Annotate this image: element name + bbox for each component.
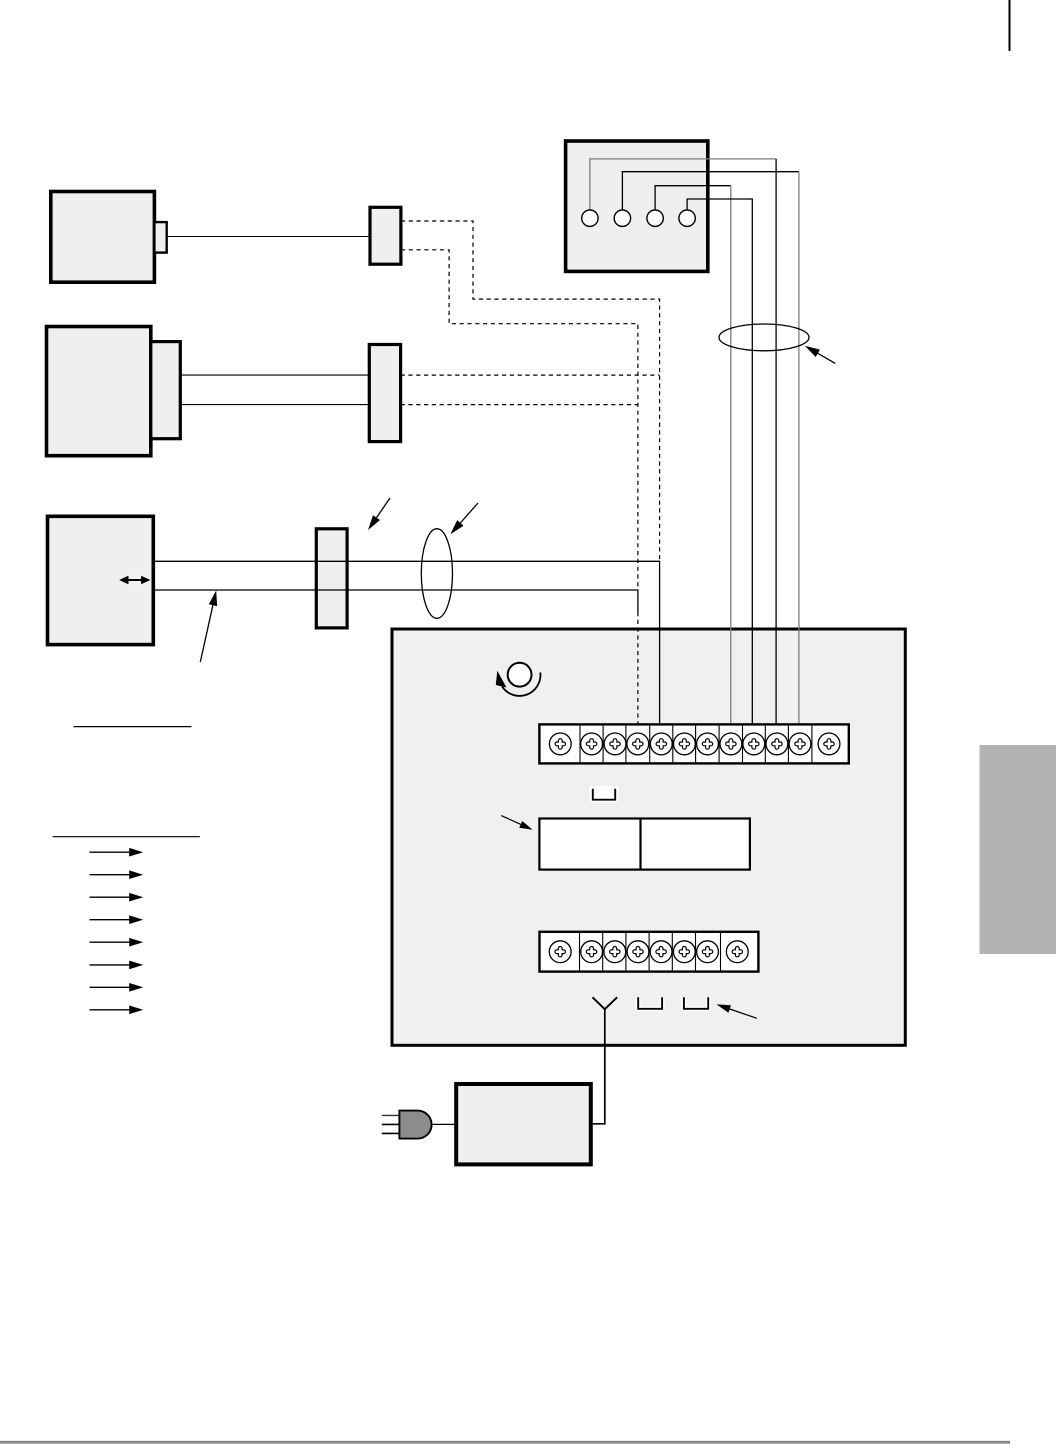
wire box1 to connector1 xyxy=(167,236,370,238)
upper terminal divider 6 xyxy=(695,726,697,763)
remote station box xyxy=(566,141,708,271)
upper terminal screw 4 xyxy=(627,733,649,755)
lower terminal screw 5 xyxy=(650,941,672,963)
legend arrow 5 xyxy=(90,941,130,943)
upper terminal divider 4 xyxy=(649,726,651,763)
dashed cable route A xyxy=(401,221,660,561)
upper terminal screw 12 xyxy=(818,733,840,755)
wire clamp bracket (bottom 1) xyxy=(638,997,662,1009)
device box 1 lens stub xyxy=(154,222,166,253)
device box 2 xyxy=(47,327,151,456)
upper terminal divider 8 xyxy=(742,726,744,763)
legend arrow 7 xyxy=(90,986,130,988)
legend arrow 6 xyxy=(90,964,130,966)
mains plug body xyxy=(399,1111,431,1139)
upper terminal screw 3 xyxy=(604,733,626,755)
remote pin 2 xyxy=(614,210,630,226)
cable bundle ellipse xyxy=(719,324,809,351)
wire from pin 3 vertical xyxy=(730,186,732,725)
remote pin 1 xyxy=(582,210,598,226)
upper terminal screw 11 xyxy=(789,733,811,755)
lower terminal screw 7 xyxy=(697,941,719,963)
upper terminal divider 1 xyxy=(579,726,581,763)
legend underline 1 xyxy=(74,726,192,728)
lower terminal screw 1 xyxy=(549,941,571,963)
lower terminal divider 4 xyxy=(648,933,650,970)
legend arrow 1 xyxy=(90,851,130,853)
wire box3 lower xyxy=(153,590,638,612)
crop mark top right xyxy=(1009,0,1011,51)
page footer rule xyxy=(0,1441,1010,1444)
rotation arrowhead xyxy=(496,671,507,688)
legend arrow 2 xyxy=(90,874,130,876)
wire from pin 2 xyxy=(622,172,799,211)
switch unit divider xyxy=(639,819,641,870)
upper terminal block body xyxy=(539,724,848,763)
lower terminal screw 4 xyxy=(627,941,649,963)
arrow to box3 lower wire xyxy=(200,605,213,662)
upper terminal screw 10 xyxy=(766,733,788,755)
arrow to cable marker xyxy=(460,503,478,523)
wire from pin 1 vertical xyxy=(775,159,777,725)
switch unit box xyxy=(539,819,750,870)
upper terminal screw 8 xyxy=(720,733,742,755)
wire plug to adapter xyxy=(432,1123,457,1125)
wire from pin 3 xyxy=(655,186,731,211)
lower terminal divider 7 xyxy=(720,933,722,970)
control panel box xyxy=(392,629,905,1045)
upper terminal divider 11 xyxy=(811,726,813,763)
lower terminal divider 5 xyxy=(671,933,673,970)
arrow to cable bundle xyxy=(818,353,836,363)
device box 3 xyxy=(48,516,154,644)
ferrite core on box3 cable xyxy=(316,529,347,628)
mains plug prong 1 xyxy=(382,1114,400,1116)
wire from pin 2 vertical xyxy=(798,172,800,725)
connector 1 xyxy=(370,207,401,264)
upper terminal screw 6 xyxy=(674,733,696,755)
AC adapter box xyxy=(456,1084,591,1164)
arrow to bracket 2 xyxy=(730,1009,757,1018)
wire from pin 1 xyxy=(590,159,776,210)
wire box2 to connector2 (lower) xyxy=(180,404,369,406)
upper terminal screw 9 xyxy=(743,733,765,755)
bidirectional arrow in box 3 xyxy=(124,579,146,581)
dashed route D from connector2 lower xyxy=(401,404,638,406)
power wire from antenna to adapter xyxy=(591,1009,605,1124)
upper terminal screw 1 xyxy=(549,733,571,755)
arrow to ferrite core xyxy=(377,498,391,518)
wire box2 to connector2 (upper) xyxy=(180,374,369,376)
wire box3 upper xyxy=(153,561,659,724)
upper terminal divider 9 xyxy=(764,726,766,763)
upper terminal divider 2 xyxy=(602,726,604,763)
upper terminal divider 7 xyxy=(718,726,720,763)
lower terminal screw 6 xyxy=(673,941,695,963)
wire clamp bracket (bottom 2) xyxy=(684,997,708,1009)
lower terminal divider 3 xyxy=(625,933,627,970)
mains plug prong 2 xyxy=(382,1123,400,1125)
upper terminal divider 3 xyxy=(625,726,627,763)
upper terminal screw 7 xyxy=(697,733,719,755)
rotation arc xyxy=(502,673,540,696)
dashed route C from connector2 upper xyxy=(401,374,660,376)
upper terminal screw 2 xyxy=(581,733,603,755)
device box 2 lens xyxy=(151,342,181,439)
legend underline 2 xyxy=(53,836,200,838)
upper terminal divider 10 xyxy=(787,726,789,763)
dashed cable route B xyxy=(401,250,638,590)
legend arrow 8 xyxy=(90,1009,130,1011)
lower terminal divider 6 xyxy=(695,933,697,970)
legend arrow 3 xyxy=(90,896,130,898)
lower terminal screw 3 xyxy=(604,941,626,963)
rotation knob icon xyxy=(508,663,532,687)
lower terminal screw 8 xyxy=(726,941,748,963)
connector 2 xyxy=(369,345,400,442)
device box 1 xyxy=(51,192,155,283)
lower terminal divider 2 xyxy=(602,933,604,970)
dashed cable route B lower segment xyxy=(637,612,639,724)
lower terminal block body xyxy=(540,932,759,972)
upper terminal divider 5 xyxy=(672,726,674,763)
arrow to switch unit xyxy=(501,816,521,825)
wire from pin 4 xyxy=(687,199,752,724)
upper terminal screw 5 xyxy=(650,733,672,755)
section tab (gray) xyxy=(980,745,1056,954)
wire clamp bracket (upper) xyxy=(590,786,618,802)
antenna symbol xyxy=(593,997,618,1009)
cable marker ellipse xyxy=(421,529,452,619)
remote pin 4 xyxy=(679,210,695,226)
mains plug prong 3 xyxy=(382,1132,400,1134)
legend arrow 4 xyxy=(90,919,130,921)
lower terminal divider 1 xyxy=(579,933,581,970)
lower terminal screw 2 xyxy=(581,941,603,963)
remote pin 3 xyxy=(647,210,663,226)
